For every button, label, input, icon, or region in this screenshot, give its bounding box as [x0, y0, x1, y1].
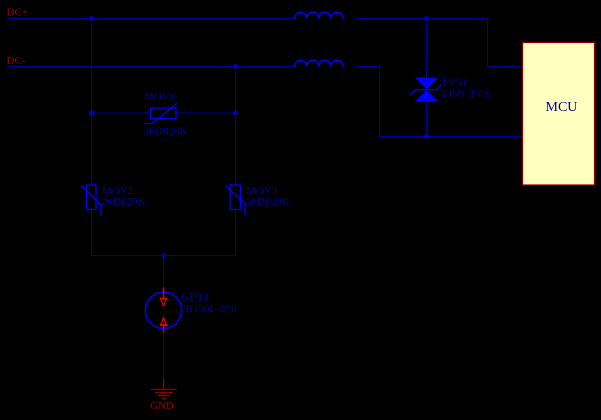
- svg-text:20D820K: 20D820K: [144, 126, 187, 138]
- junction on DC- at x=235: [233, 64, 238, 69]
- MCU label: [546, 100, 578, 115]
- net label DC+: [7, 7, 28, 19]
- svg-text:MOV1: MOV1: [144, 91, 175, 103]
- wire DC+ elbow to MCU: [488, 19, 523, 67]
- wire vertical right leg x=235 upper: [235, 67, 237, 186]
- wire TVS lower lead: [426, 102, 428, 137]
- wire ground bus: [92, 255, 236, 257]
- MOV2 value 20D820K: [102, 196, 145, 208]
- wire DC- elbow down: [379, 67, 381, 137]
- junction MOV1 row left: [89, 111, 94, 116]
- svg-text:GND: GND: [150, 400, 174, 412]
- MOV1 value 20D820K: [144, 126, 187, 138]
- ground label GND: [150, 400, 174, 412]
- MCU block U1: [523, 43, 595, 186]
- junction ground bus center: [161, 253, 166, 258]
- varistor MOV2 body: [81, 185, 101, 216]
- wire DC- left segment: [7, 66, 295, 68]
- GDT1 bottom arrow (red): [160, 318, 168, 333]
- net label DC-: [7, 55, 26, 67]
- junction MOV1 row right: [233, 111, 238, 116]
- gas discharge tube GDT1 circle: [145, 292, 181, 328]
- wire GDT to ground: [163, 331, 165, 379]
- wire DC+ right segment: [355, 18, 488, 20]
- wire lower horizontal to MCU: [380, 136, 523, 138]
- junction lower horizontal at TVS: [424, 134, 429, 139]
- svg-text:YINT TVS: YINT TVS: [441, 89, 490, 101]
- varistor MOV3 body: [226, 185, 246, 216]
- wire vertical left leg x=91 upper: [91, 19, 93, 186]
- wire MOV1 row right: [176, 112, 236, 114]
- wire MOV1 row left: [92, 112, 151, 114]
- svg-text:20D820K: 20D820K: [102, 196, 145, 208]
- wire vertical right leg x=235 lower: [235, 210, 237, 256]
- junction on DC+ at x=426: [424, 16, 429, 21]
- wire vertical left leg x=91 lower: [91, 210, 93, 256]
- wire DC- right segment: [355, 66, 380, 68]
- svg-text:DC-: DC-: [7, 55, 26, 67]
- svg-text:MCU: MCU: [546, 100, 578, 115]
- TVS diode TVS1 body (bidirectional): [411, 78, 442, 102]
- MOV3 value 20D820K: [246, 196, 289, 208]
- MOV3 designator: [246, 185, 278, 197]
- GDT1 designator: [181, 292, 209, 304]
- svg-text:TVS1: TVS1: [441, 77, 467, 89]
- svg-text:DC+: DC+: [7, 7, 28, 19]
- TVS1 value YINT TVS: [441, 89, 490, 101]
- GDT1 value 2R150L-8*6: [180, 303, 237, 315]
- svg-text:GDT1: GDT1: [181, 292, 209, 304]
- MOV2 designator: [102, 185, 133, 197]
- svg-text:20D820K: 20D820K: [246, 196, 289, 208]
- ground symbol: [151, 379, 177, 399]
- junction on DC+ at x=91: [89, 16, 94, 21]
- MOV1 designator: [144, 91, 175, 103]
- inductor L2 (DC- line): [295, 60, 343, 66]
- varistor MOV1 body: [144, 103, 177, 124]
- wire bus to GDT: [163, 256, 165, 291]
- wire DC+ left segment: [7, 18, 295, 20]
- svg-text:2R150L-8*6: 2R150L-8*6: [180, 303, 237, 315]
- wire TVS upper lead: [426, 19, 428, 78]
- inductor L1 (DC+ line): [295, 12, 343, 18]
- GDT1 top arrow (red): [160, 288, 168, 306]
- TVS1 designator: [441, 77, 467, 89]
